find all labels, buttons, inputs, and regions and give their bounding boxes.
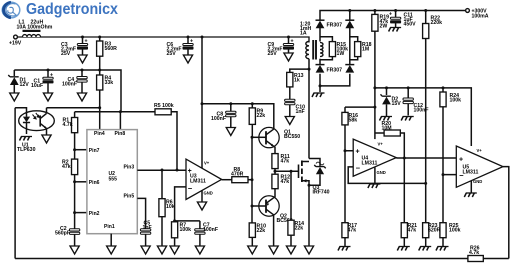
capacitor C9 — [268, 37, 294, 57]
ground — [78, 55, 87, 63]
svg-text:V+: V+ — [378, 141, 384, 146]
node R22 top — [424, 9, 427, 12]
light arrows — [33, 113, 40, 119]
wire U4 output — [396, 157, 456, 159]
node gate tap — [274, 170, 277, 173]
op-amp U5 — [456, 146, 503, 187]
ground — [248, 246, 257, 254]
node V+ branch — [201, 102, 204, 105]
ground — [284, 53, 293, 61]
ground — [70, 246, 79, 254]
svg-text:1k: 1k — [294, 78, 300, 84]
U4 gnd stub — [374, 167, 376, 183]
svg-text:10k: 10k — [166, 204, 175, 210]
wire V+ vertical to U3 — [201, 37, 203, 169]
wire Q1 base — [252, 136, 266, 138]
svg-text:Pin5: Pin5 — [124, 194, 135, 200]
svg-text:25V: 25V — [268, 51, 278, 57]
wire U3 inverting input — [175, 187, 200, 221]
wire Pin4 stub — [99, 108, 101, 130]
capacitor C5 — [140, 221, 151, 235]
node R4 top — [98, 69, 101, 72]
svg-text:555: 555 — [109, 176, 118, 182]
svg-text:FR307: FR307 — [327, 68, 343, 74]
wire Q2 base — [252, 205, 266, 207]
svg-text:450V: 450V — [404, 22, 417, 28]
wire bottom feedback rail — [15, 258, 509, 260]
node Pin6 — [73, 180, 76, 183]
resistor R15 — [320, 37, 348, 60]
inductor L1 — [17, 20, 53, 38]
wire top rail — [17, 37, 309, 43]
node Q1 base — [251, 136, 254, 139]
svg-text:FR307: FR307 — [327, 23, 343, 29]
node R5 tap — [176, 169, 179, 172]
svg-text:620R: 620R — [428, 228, 441, 234]
ground — [197, 202, 206, 210]
wire down to Pin2 — [74, 182, 76, 213]
svg-text:+: + — [85, 39, 88, 45]
optocoupler U1 body — [19, 111, 55, 131]
wire Pin8 stub — [119, 112, 121, 130]
ground — [397, 247, 410, 251]
svg-text:33k: 33k — [105, 80, 114, 86]
svg-text:Pin1: Pin1 — [104, 224, 115, 230]
svg-text:100nF: 100nF — [203, 227, 218, 233]
svg-text:R5 100k: R5 100k — [154, 103, 174, 109]
wire Pin7 — [75, 149, 87, 151]
resistor R23 — [423, 223, 441, 246]
ground — [107, 246, 116, 254]
wire R19 down to U4 V+ — [374, 31, 376, 139]
wire secondary top to output rail — [320, 11, 468, 42]
ground Q2 collector — [269, 246, 278, 254]
svg-text:Pin7: Pin7 — [89, 148, 100, 154]
ground — [464, 193, 477, 197]
resistor R13 — [287, 69, 309, 99]
node D2 top — [385, 86, 388, 89]
output terminal +300V — [466, 9, 489, 20]
capacitor C11 — [389, 11, 416, 28]
svg-text:LM311: LM311 — [190, 178, 206, 184]
ground — [419, 247, 432, 251]
Gadgetronicx logo icon — [2, 2, 20, 18]
resistor R8 — [231, 167, 252, 183]
node U4 noninverting — [344, 149, 347, 152]
resistor R11 — [272, 154, 290, 175]
resistor R14 — [288, 171, 304, 246]
node R19 top — [373, 9, 376, 12]
svg-text:V+: V+ — [204, 161, 210, 166]
svg-text:+: + — [389, 12, 392, 18]
svg-text:47k: 47k — [62, 164, 71, 170]
node C8 top — [229, 102, 232, 105]
wire 12V rail — [14, 70, 121, 112]
svg-text:560R: 560R — [105, 46, 118, 52]
svg-text:25V: 25V — [61, 51, 71, 57]
wire base bus — [251, 137, 253, 206]
ground — [380, 117, 393, 121]
svg-text:10M: 10M — [382, 126, 392, 132]
capacitor C1 — [31, 70, 53, 93]
svg-text:25V: 25V — [167, 51, 177, 57]
svg-text:LM311: LM311 — [362, 161, 378, 167]
capacitor C2 — [55, 213, 80, 246]
capacitor C12 — [403, 88, 429, 116]
svg-text:22k: 22k — [257, 228, 266, 234]
wire source down — [308, 185, 310, 246]
svg-text:100mA: 100mA — [472, 14, 489, 20]
wire U4 inverting input — [348, 167, 426, 184]
resistor R10 — [249, 223, 266, 246]
resistor R5 — [154, 103, 177, 170]
svg-text:TLP630: TLP630 — [17, 147, 36, 153]
svg-text:100k: 100k — [450, 98, 462, 104]
capacitor C10 — [285, 99, 306, 116]
ground — [286, 246, 295, 254]
capacitor C4 — [62, 70, 87, 93]
capacitor C8 — [211, 104, 236, 128]
ground — [170, 246, 179, 254]
transformer core — [313, 40, 316, 60]
resistor R21 — [401, 223, 417, 246]
diode FR307 secondary top — [316, 20, 325, 28]
wire R24 to U5 inv and R25 — [443, 107, 456, 223]
U3 gnd stub — [201, 190, 203, 202]
resistor R22 — [423, 11, 443, 39]
wire Vcc line B — [75, 111, 155, 113]
node aux 15V rail — [373, 86, 376, 89]
svg-text:560pF: 560pF — [55, 231, 70, 237]
node R13 tap — [308, 68, 311, 71]
ground — [368, 184, 381, 188]
capacitor C6 — [167, 37, 194, 57]
node C1 top — [47, 69, 50, 72]
555 pin labels — [89, 131, 135, 230]
svg-text:+: + — [50, 73, 53, 79]
wire Pin1 stub — [110, 234, 112, 246]
node U5 inverting — [442, 173, 445, 176]
svg-text:GND: GND — [377, 170, 386, 175]
svg-text:1A: 1A — [300, 31, 307, 37]
ground — [195, 246, 204, 254]
ground — [226, 128, 235, 136]
ground — [43, 93, 52, 101]
svg-text:220k: 220k — [431, 20, 443, 26]
node R16 feed — [373, 106, 376, 109]
capacitor C7 — [195, 221, 218, 246]
svg-text:GND: GND — [204, 190, 213, 195]
svg-text:2W: 2W — [380, 24, 388, 30]
svg-text:15V: 15V — [392, 101, 402, 107]
zener D2 — [381, 88, 402, 116]
svg-text:47k: 47k — [348, 228, 357, 234]
wire U5 output feedback — [503, 167, 509, 259]
resistor R24 — [440, 88, 461, 107]
ground — [304, 246, 313, 254]
body diode D3 — [309, 159, 326, 186]
node collector/R4/Pin4 — [98, 106, 101, 109]
svg-text:4.7k: 4.7k — [63, 122, 73, 128]
svg-text:Pin6: Pin6 — [89, 180, 100, 186]
resistor R17 — [342, 223, 357, 246]
node C12 top — [407, 86, 410, 89]
svg-text:BC550: BC550 — [284, 134, 300, 140]
ground — [10, 93, 19, 101]
ground — [436, 247, 449, 251]
node R8 out — [251, 178, 254, 181]
resistor R1 — [63, 112, 78, 150]
wire R21 — [403, 158, 405, 223]
svg-text:12V: 12V — [20, 82, 30, 88]
svg-text:4.7k: 4.7k — [469, 250, 479, 256]
svg-text:Gadgetronicx: Gadgetronicx — [26, 1, 118, 18]
node C3 top — [81, 36, 84, 39]
svg-text:1W: 1W — [337, 51, 345, 57]
diode FR307 clamp top — [345, 20, 354, 28]
resistor R19 — [372, 11, 389, 32]
svg-text:+: + — [356, 148, 360, 155]
wire primary bottom to drain — [308, 59, 310, 159]
capacitor C3 — [61, 37, 88, 57]
resistor R9 — [249, 104, 265, 138]
node Pin7 — [73, 148, 76, 151]
ground — [285, 117, 294, 125]
node Q2 base — [251, 205, 254, 208]
node Q3 source — [308, 184, 311, 187]
wire R16 to U4 plus and R17 — [345, 125, 353, 223]
resistor R18 — [350, 37, 372, 60]
svg-text:Pin3: Pin3 — [124, 164, 135, 170]
op-amp U4 — [353, 139, 396, 176]
resistor R16 — [342, 107, 358, 125]
wire Pin2 — [75, 212, 87, 214]
ground emitter — [42, 135, 51, 143]
input terminal +19V — [9, 35, 22, 46]
node R24 top — [442, 86, 445, 89]
svg-text:10uF: 10uF — [31, 83, 43, 89]
svg-text:100k: 100k — [180, 227, 192, 233]
transformer T1 primary winding — [300, 22, 311, 59]
ground chassis for LED — [20, 137, 33, 141]
wire collector to R4 node — [47, 107, 100, 109]
diode FR307 secondary bottom — [316, 65, 325, 73]
svg-text:+: + — [291, 39, 294, 45]
resistor R26 — [468, 246, 483, 262]
svg-text:1M: 1M — [362, 47, 369, 53]
wire Pin3 to U3 — [137, 169, 186, 171]
resistor R20 — [375, 121, 404, 158]
wire U3 output — [222, 179, 232, 181]
ground — [141, 246, 150, 254]
phototransistor inside U1 — [40, 108, 46, 135]
svg-text:Pin4: Pin4 — [94, 131, 105, 137]
LED inside U1 — [23, 117, 30, 134]
diode FR307 clamp bottom — [345, 65, 354, 73]
wire V3 — [320, 11, 350, 86]
svg-text:V+: V+ — [477, 148, 483, 153]
resistor R2 — [62, 150, 78, 182]
svg-text:+: + — [190, 39, 193, 45]
node R3 top — [98, 36, 101, 39]
wire secondary bottom — [319, 59, 321, 92]
svg-text:47k: 47k — [281, 159, 290, 165]
svg-text:1nF: 1nF — [143, 225, 152, 231]
svg-text:10A 100mOhm: 10A 100mOhm — [17, 25, 53, 31]
ground — [77, 93, 86, 101]
node R6 tap — [161, 169, 164, 172]
svg-text:47k: 47k — [408, 228, 417, 234]
svg-text:GND: GND — [473, 179, 482, 184]
svg-text:Pin2: Pin2 — [89, 211, 100, 217]
node V3 rail — [348, 9, 351, 12]
node R22/R23 divider — [424, 182, 427, 185]
resistor R12 — [272, 174, 290, 189]
node C4 top — [81, 69, 84, 72]
wire R22 divider down — [425, 39, 427, 223]
node U3 inverting — [173, 219, 176, 222]
wire H2 aux 15V rail — [375, 88, 471, 146]
svg-text:IRF740: IRF740 — [313, 190, 330, 196]
ground — [312, 93, 325, 97]
resistor R3 — [97, 37, 118, 70]
ground — [157, 246, 166, 254]
node Pin2 — [73, 211, 76, 214]
svg-text:100k: 100k — [449, 228, 461, 234]
node R9 top — [251, 102, 254, 105]
svg-text:100nF: 100nF — [414, 108, 429, 114]
node clamp return — [319, 84, 322, 87]
svg-text:100nF: 100nF — [211, 116, 226, 122]
transistor Q2 — [259, 189, 293, 246]
wire V+ line to Q1 collector — [202, 104, 274, 130]
node C6 top — [187, 36, 190, 39]
svg-text:+19V: +19V — [9, 40, 22, 46]
ground — [401, 117, 414, 121]
IC U2 555 box — [87, 130, 137, 234]
node R21 top — [403, 157, 406, 160]
wire Pin6 — [75, 181, 87, 183]
op-amp U3 — [186, 159, 222, 199]
zener D1 — [8, 70, 29, 93]
transistor Q1 — [259, 127, 300, 153]
svg-text:100nF: 100nF — [62, 82, 77, 88]
svg-text:+: + — [459, 156, 463, 163]
ground — [389, 28, 402, 32]
wire R10 tap — [251, 206, 253, 223]
svg-text:−: − — [356, 163, 361, 172]
transformer T1 secondary winding — [320, 43, 323, 57]
svg-text:Pin8: Pin8 — [115, 131, 126, 137]
ground — [183, 55, 192, 63]
node C9 top — [287, 36, 290, 39]
resistor R7 — [172, 222, 192, 246]
ground — [338, 247, 351, 251]
resistor R4 — [97, 70, 114, 108]
wire H1 to R16 — [345, 106, 375, 108]
svg-text:22k: 22k — [257, 113, 266, 119]
node C11 top — [394, 9, 397, 12]
svg-text:47k: 47k — [281, 179, 290, 185]
svg-text:470R: 470R — [231, 172, 244, 178]
wire Pin5 to C5 — [137, 198, 145, 246]
node Pin8/rail drop — [119, 110, 122, 113]
svg-text:LM311: LM311 — [463, 170, 479, 176]
wire feedback left border — [14, 108, 16, 259]
wire LED anode — [15, 108, 26, 117]
svg-text:22k: 22k — [295, 226, 304, 232]
node V+ feed — [201, 36, 204, 39]
resistor R25 — [440, 223, 461, 246]
resistor R6 — [159, 170, 175, 246]
svg-text:1nF: 1nF — [296, 109, 305, 115]
svg-text:58k: 58k — [349, 118, 358, 124]
U5 gnd stub — [470, 181, 472, 193]
svg-text:−: − — [188, 184, 193, 193]
node R14 tap — [290, 170, 293, 173]
wire gate — [275, 170, 299, 172]
MOSFET Q3 — [299, 161, 330, 196]
